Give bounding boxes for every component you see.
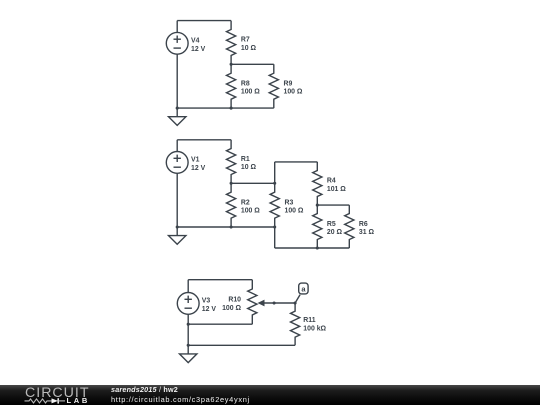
node junction V4 bottom [176, 107, 179, 110]
svg-text:a: a [301, 285, 306, 294]
voltage source V1 [166, 152, 188, 174]
label R1 name and value [241, 156, 257, 171]
CircuitLab logo [0, 385, 110, 411]
svg-text:V1: V1 [191, 157, 200, 164]
resistor R8 [227, 64, 236, 108]
node junction V3 bottom [187, 323, 190, 326]
label R7 name and value [241, 37, 257, 52]
svg-text:R6: R6 [359, 221, 368, 228]
svg-text:R8: R8 [241, 80, 250, 87]
svg-text:R7: R7 [241, 37, 250, 44]
voltage source V4 [166, 32, 188, 54]
wire V3 column down [187, 324, 189, 345]
wire lower bottom rail circuit 2 [275, 247, 350, 249]
wire R3 bottom down to lower rail [274, 227, 276, 248]
resistor R2 [227, 183, 236, 227]
wire V4 top lead [176, 21, 178, 33]
wire R10 bottom to V3 column [188, 323, 252, 325]
wire V1 bottom lead [176, 173, 178, 227]
wire R1 node to R3 top node [231, 182, 275, 184]
ground circuit 1 [169, 108, 186, 125]
label V1 name and value [191, 157, 206, 172]
svg-text:V3: V3 [202, 298, 211, 305]
wire V3 bottom lead [187, 314, 189, 324]
svg-text:100 Ω: 100 Ω [285, 208, 304, 215]
resistor R3 [270, 183, 279, 227]
wire mid node to R9 [231, 63, 274, 65]
svg-text:R4: R4 [327, 178, 336, 185]
node junction ground rail [187, 344, 190, 347]
footer credit line 1 [111, 386, 178, 393]
wire bottom rail circuit 1 [177, 107, 274, 109]
label R4 name and value [327, 178, 346, 193]
wire bottom rail circuit 3 [188, 344, 295, 346]
svg-text:101 Ω: 101 Ω [327, 186, 346, 193]
svg-text:R10: R10 [228, 297, 241, 304]
svg-text:100 kΩ: 100 kΩ [303, 325, 326, 332]
node junction on wiper wire [273, 301, 276, 304]
label R6 name and value [359, 221, 375, 236]
resistor R11 [291, 303, 300, 345]
wire to R4 top [275, 161, 318, 163]
svg-text:100 Ω: 100 Ω [284, 89, 303, 96]
label V3 name and value [202, 298, 217, 313]
node junction below R4 [316, 204, 319, 207]
node junction R8 bottom [230, 107, 233, 110]
svg-text:12 V: 12 V [191, 165, 206, 172]
voltage source V3 [177, 293, 199, 315]
svg-text:20 Ω: 20 Ω [327, 229, 343, 236]
wire V3 top lead [187, 280, 189, 293]
wire R4 node to R6 top [317, 204, 349, 206]
node junction R3 bottom [273, 225, 276, 228]
svg-text:R11: R11 [303, 317, 315, 324]
svg-text:R3: R3 [285, 199, 294, 206]
wire top rail V3 to R10 [188, 279, 252, 281]
svg-text:100 Ω: 100 Ω [241, 208, 260, 215]
svg-text:R2: R2 [241, 199, 250, 206]
resistor R4 [313, 162, 322, 205]
node junction R3 top [273, 182, 276, 185]
node junction R5 bottom [316, 246, 319, 249]
label R8 name and value [241, 80, 260, 95]
resistor R6 [345, 205, 354, 248]
resistor R5 [313, 205, 322, 248]
svg-text:10 Ω: 10 Ω [241, 45, 257, 52]
resistor R9 [269, 64, 278, 108]
label R9 name and value [284, 80, 303, 95]
wire R3 top node up [274, 162, 276, 183]
node junction V1 bottom [176, 225, 179, 228]
svg-text:V4: V4 [191, 38, 200, 45]
node junction below R7 [230, 63, 233, 66]
label R11 name and value [303, 317, 326, 332]
svg-text:LAB: LAB [67, 395, 91, 404]
label R10 name and value [222, 297, 241, 312]
wire top rail V1 to R1 [177, 139, 231, 141]
resistor R7 [227, 21, 236, 65]
svg-text:12 V: 12 V [191, 46, 206, 53]
label V4 name and value [191, 38, 206, 53]
wire V4 bottom lead [176, 54, 178, 108]
CircuitLab logo schematic line with resistor and diode [25, 398, 66, 403]
label R3 name and value [285, 199, 304, 214]
ground circuit 3 [180, 345, 197, 362]
wire top rail V4 to R7 [177, 20, 231, 22]
svg-text:10 Ω: 10 Ω [241, 164, 257, 171]
svg-text:100 Ω: 100 Ω [222, 305, 241, 312]
svg-text:R1: R1 [241, 156, 250, 163]
potentiometer R10 [248, 280, 295, 325]
resistor R1 [227, 140, 236, 184]
node junction below R1 [230, 182, 233, 185]
node junction wiper to R11 and flag [294, 301, 297, 304]
footer bar [0, 385, 540, 405]
svg-text:12 V: 12 V [202, 306, 217, 313]
svg-text:R5: R5 [327, 221, 336, 228]
wire V1 top lead [176, 140, 178, 152]
node junction R2 bottom [230, 225, 233, 228]
svg-text:100 Ω: 100 Ω [241, 89, 260, 96]
svg-text:31 Ω: 31 Ω [359, 229, 375, 236]
flag node a [295, 283, 308, 303]
ground circuit 2 [169, 227, 186, 244]
footer credit line 2 [111, 396, 250, 403]
svg-text:R9: R9 [284, 80, 293, 87]
label R5 name and value [327, 221, 343, 236]
wire bottom rail circuit 2 [177, 226, 275, 228]
label R2 name and value [241, 199, 260, 214]
